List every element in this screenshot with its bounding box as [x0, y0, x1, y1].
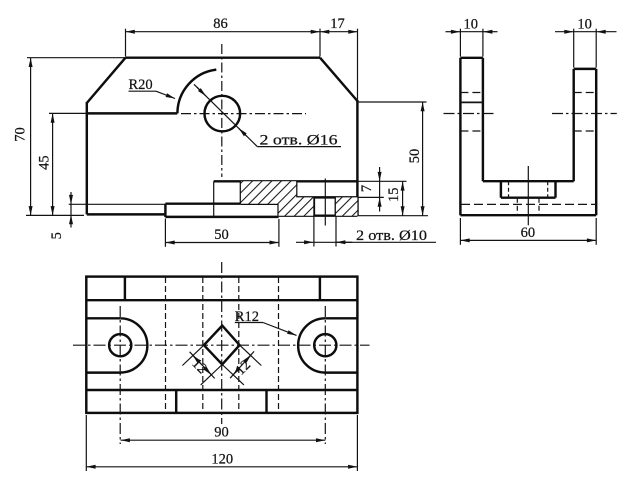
- top view hole left: [109, 334, 131, 356]
- dim 12 left line: [190, 352, 215, 379]
- top view middle centerline: [221, 262, 223, 424]
- dim 5 extension: [69, 203, 166, 205]
- front view step down vertical x=278.6: [277, 204, 279, 216]
- arc R20: [177, 70, 216, 114]
- hole D10 centerline front: [324, 179, 326, 226]
- top view band tick x=266.5: [265, 390, 267, 413]
- top view hidden hole left edge: [202, 277, 204, 413]
- dim d10 extensions: [313, 217, 315, 247]
- leader D16 diagonal: [194, 84, 257, 146]
- svg-text:90: 90: [214, 425, 229, 441]
- dim 17 extension line: [357, 29, 359, 100]
- top view diamond cutout: [204, 326, 240, 365]
- svg-text:45: 45: [36, 155, 52, 170]
- top view left hole centerline: [119, 306, 121, 444]
- side view boss hidden edge left: [508, 181, 510, 198]
- top view hidden tab right edge: [278, 277, 280, 413]
- dim 86 line: [126, 31, 321, 33]
- side view chamfer projection line: [460, 101, 483, 103]
- top view pocket bottom left: [86, 371, 120, 373]
- dim 45 line: [52, 113, 54, 215]
- svg-text:5: 5: [49, 232, 65, 239]
- top view hidden tab left edge: [165, 277, 167, 413]
- side view left wall top edge: [460, 57, 483, 59]
- front view right chamfer: [320, 58, 357, 101]
- side view boss right edge: [554, 181, 556, 198]
- svg-text:2 отв. Ø10: 2 отв. Ø10: [356, 228, 427, 244]
- dim 10 left extensions: [459, 29, 461, 57]
- dim 7 extension: [357, 196, 383, 198]
- side view boss bottom edge: [501, 196, 556, 198]
- dim 12 right extension lines: [222, 365, 244, 385]
- svg-text:R12: R12: [235, 309, 259, 325]
- dim 90 line: [121, 439, 326, 441]
- top view pocket arc right: [298, 318, 325, 372]
- circle hole D16: [205, 96, 241, 132]
- top view horizontal centerline: [73, 344, 370, 346]
- dim 50 bottom extensions: [164, 219, 166, 247]
- hatch region right (section): [336, 197, 358, 215]
- front view tab top edge: [165, 202, 241, 204]
- top view band tick x=124.9: [124, 277, 126, 301]
- svg-text:60: 60: [521, 225, 536, 241]
- front view tab bottom edge: [165, 216, 278, 218]
- svg-text:50: 50: [407, 149, 423, 164]
- leader R12: [235, 322, 263, 324]
- top view band line lower: [86, 389, 357, 391]
- top view pocket top right: [325, 317, 357, 319]
- front view step top edge y=181: [214, 180, 358, 182]
- front view inner shelf edge y=113: [87, 112, 178, 114]
- svg-text:120: 120: [211, 452, 233, 468]
- side view lower hidden edge left: [516, 198, 518, 216]
- top view band tick x=176.2: [175, 390, 177, 413]
- svg-text:2 отв. Ø16: 2 отв. Ø16: [260, 132, 339, 148]
- dim 10 right arrows: [555, 31, 574, 33]
- dim 50 right extension: [358, 101, 427, 103]
- dim 70 top extension: [27, 57, 126, 59]
- step inner thin vertical x=213.7: [213, 181, 215, 217]
- top view pocket arc left: [120, 318, 147, 372]
- dim 7 arrows: [379, 167, 381, 181]
- side view hidden hole bottom left wall: [460, 130, 483, 132]
- svg-text:50: 50: [214, 227, 229, 243]
- svg-text:R20: R20: [129, 77, 153, 93]
- front view step left thick vertical x=241: [240, 181, 242, 204]
- dim 10 right extensions: [573, 29, 575, 68]
- dim 60 line: [460, 239, 596, 241]
- side view hidden hole top right wall: [574, 92, 597, 94]
- side view hole axis left: [444, 113, 496, 115]
- dim 17 line: [320, 31, 358, 33]
- dim 45 top extension: [49, 112, 87, 114]
- dim 15 extension bottom: [357, 215, 428, 217]
- front view hole right edge x=336: [335, 197, 337, 215]
- top view pocket top left: [86, 317, 120, 319]
- top view outline: [86, 277, 357, 413]
- top view band tick x=319.9: [319, 277, 321, 301]
- top view right hole centerline: [324, 306, 326, 444]
- circle horizontal centerline: [181, 113, 306, 115]
- dim 15 extension top: [357, 180, 406, 182]
- front view right edge lower: [356, 197, 358, 215]
- front view bottom-left edge: [87, 213, 166, 215]
- front view left edge: [86, 102, 88, 214]
- side view hidden hole bottom right wall: [574, 130, 597, 132]
- svg-text:10: 10: [577, 16, 592, 32]
- svg-text:70: 70: [13, 127, 29, 142]
- side view right wall inner edge: [572, 69, 574, 181]
- front view hole left edge x=313: [313, 197, 315, 215]
- side view left wall inner edge: [482, 58, 484, 181]
- front view tab left edge: [164, 204, 166, 217]
- svg-text:10: 10: [464, 16, 479, 32]
- dim 15 line: [402, 181, 404, 215]
- side view boss centerline: [527, 166, 529, 225]
- side view hidden bottom plate line: [461, 203, 596, 205]
- dim 50 right line: [422, 102, 424, 216]
- leader R20: [129, 90, 157, 92]
- front view hatch bottom edge: [241, 203, 279, 205]
- leader D16 shelf: [257, 146, 341, 148]
- dim 10 left arrows: [446, 31, 461, 33]
- front view left chamfer: [87, 58, 126, 103]
- front view bottom right edge: [279, 214, 358, 216]
- side view lower hidden edge right: [538, 198, 540, 216]
- dim 86 extension lines: [125, 29, 127, 57]
- top view pocket bottom right: [325, 371, 357, 373]
- dim 120 line: [86, 466, 357, 468]
- front view mid step edge y=197.4: [296, 196, 357, 198]
- side view right wall top edge: [574, 68, 597, 70]
- side view bottom edge: [460, 214, 596, 216]
- dim 5 line and outside arrows: [70, 192, 72, 204]
- circle vertical centerline: [221, 44, 223, 177]
- dim 70 line: [30, 58, 32, 216]
- side view boss hidden edge right: [547, 181, 549, 198]
- svg-text:17: 17: [330, 16, 345, 32]
- dim 120 extensions: [85, 415, 87, 471]
- dim 12 right line: [230, 351, 254, 378]
- side view boss left edge: [500, 181, 502, 198]
- dim 12 left extension lines: [182, 345, 204, 365]
- top view hole right: [314, 334, 336, 356]
- top view band line upper: [86, 299, 357, 301]
- front view right edge upper: [356, 100, 358, 216]
- dim 50 bottom line: [165, 242, 278, 244]
- side view shelf edge: [483, 180, 574, 182]
- top view hidden hole right edge: [238, 277, 240, 413]
- side view right wall outer edge: [595, 69, 597, 215]
- front view step right vertical x=296: [295, 181, 297, 197]
- dim 60 extensions: [459, 218, 461, 245]
- front view top edge: [126, 56, 321, 58]
- hatch region left (section): [241, 181, 313, 215]
- dim 70 bottom extension: [26, 214, 84, 216]
- side view left wall outer edge: [459, 58, 461, 215]
- svg-text:7: 7: [359, 185, 375, 192]
- side view hole axis right: [552, 113, 617, 115]
- side view hidden hole top left wall: [460, 92, 483, 94]
- svg-text:86: 86: [213, 16, 228, 32]
- dim d10 line with outside arrows: [296, 241, 313, 243]
- svg-text:15: 15: [386, 188, 402, 203]
